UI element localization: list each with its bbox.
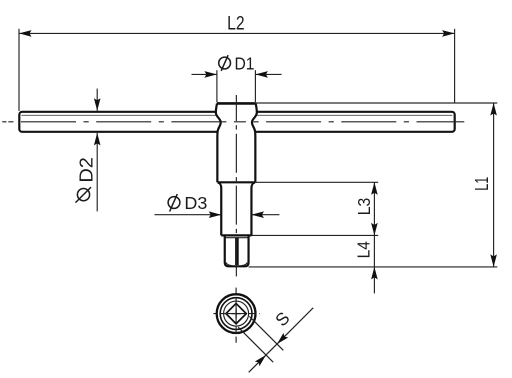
dim L2 arrow left <box>19 30 32 37</box>
svg-text:D3: D3 <box>184 193 207 213</box>
diameter symbol D3 <box>168 194 180 211</box>
dim D3 line left <box>155 214 222 216</box>
shaft left profile <box>216 103 221 182</box>
dim S arrow lower <box>255 355 266 366</box>
dim L4 arrow up <box>371 267 378 280</box>
dim D2 lower line <box>96 133 98 212</box>
bottom view square (diamond) <box>226 303 246 323</box>
bottom view center cross <box>232 313 241 315</box>
dim D1 arrow left <box>204 71 217 78</box>
dim D3 arrow left <box>209 211 222 218</box>
dim D3 arrow right <box>251 211 264 218</box>
dim L1 arrow up <box>490 103 497 116</box>
dim D1 ext right <box>254 70 256 102</box>
dim D1 line right <box>255 73 281 75</box>
bottom view vertical centerline <box>235 288 237 343</box>
bar centerline start tick <box>2 121 6 123</box>
dim L2 line <box>19 32 455 34</box>
dim L3/L4 mid ext <box>252 234 379 236</box>
bar horizontal centerline left <box>3 121 236 123</box>
svg-text:D2: D2 <box>77 157 97 183</box>
dim L1 top ext <box>256 102 497 104</box>
dim D1 ext left <box>216 70 218 102</box>
dim D2 upper line <box>96 89 98 111</box>
dim L1 bottom ext (shared with L4) <box>249 266 498 268</box>
dim D2 arrow up <box>94 133 101 146</box>
bottom view inner circle <box>224 301 249 326</box>
dim S ext line 2 <box>238 327 273 362</box>
bar horizontal centerline right <box>236 121 464 123</box>
shaft top edge <box>217 102 256 105</box>
dim L3 arrow up <box>371 182 378 195</box>
dim L2 arrow right <box>442 30 455 37</box>
dim D1 line left <box>192 73 217 75</box>
dim L1 line <box>493 103 495 267</box>
bottom view outer circle <box>217 294 256 333</box>
square bottom arc right <box>242 263 248 266</box>
bar highlight line <box>22 114 453 116</box>
square bottom arc left <box>226 263 232 266</box>
dim L3 line <box>373 182 375 235</box>
svg-text:L3: L3 <box>354 198 374 216</box>
dim D1 arrow right <box>255 71 268 78</box>
diameter symbol D2 <box>76 187 92 203</box>
dim S line <box>249 308 314 373</box>
dim L1 arrow down <box>490 254 497 267</box>
dim S ext line 1 <box>249 316 283 350</box>
shoulder D3/square <box>221 234 251 236</box>
square front corner edge <box>235 238 239 265</box>
bottom view horizontal centerline <box>213 313 260 315</box>
dim L2 ext left <box>18 29 20 111</box>
bar (cross handle) outline <box>19 112 454 132</box>
svg-text:L4: L4 <box>354 241 374 258</box>
svg-text:D1: D1 <box>235 53 255 73</box>
D3 right side <box>251 183 254 236</box>
diameter symbol D1 <box>219 55 231 71</box>
dim L4 lower tail <box>373 267 375 294</box>
dim L2 ext right <box>454 29 456 103</box>
dim L3 top ext <box>255 181 378 183</box>
shoulder D1/D3 <box>217 181 255 183</box>
shaft white fill (covers bar) <box>216 103 257 266</box>
shaft vertical centerline <box>235 95 237 278</box>
svg-text:L1: L1 <box>471 177 492 191</box>
dim D3 line right <box>251 214 279 216</box>
D3 left side <box>218 183 221 236</box>
dim L4 line <box>373 235 375 267</box>
dim L3 arrow down <box>371 223 378 236</box>
shaft right profile <box>252 103 257 182</box>
svg-text:L2: L2 <box>227 14 245 35</box>
square chamfer line <box>225 237 248 239</box>
square drive outline <box>225 235 249 266</box>
dim S arrow upper <box>277 333 288 344</box>
bottom view middle circle <box>220 298 252 330</box>
dim D2 arrow down <box>94 98 101 111</box>
